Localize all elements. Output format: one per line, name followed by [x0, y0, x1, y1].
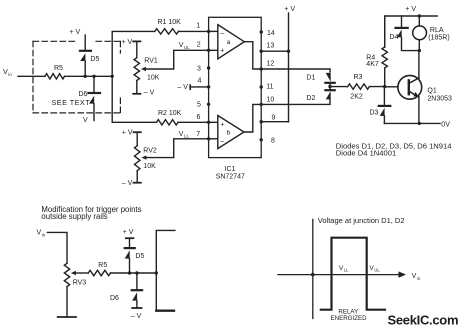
diode D1	[326, 73, 331, 82]
pin 14	[260, 30, 263, 33]
power +V label RV1	[122, 39, 133, 46]
svg-text:2K2: 2K2	[350, 94, 363, 101]
svg-text:+ V: + V	[284, 6, 295, 13]
svg-text:RV1: RV1	[144, 57, 158, 64]
node VUL label	[369, 265, 380, 273]
svg-text:R3: R3	[354, 74, 363, 81]
node VLL label	[339, 265, 349, 273]
svg-text:UL: UL	[374, 268, 380, 273]
svg-text:4K7: 4K7	[366, 61, 379, 68]
svg-text:10K: 10K	[143, 163, 156, 170]
junction dot node feed	[111, 75, 114, 78]
resistor R1	[155, 29, 179, 34]
diode D4	[401, 16, 403, 27]
wire R3 to base node	[369, 86, 384, 88]
diode D5 mod	[126, 237, 134, 239]
svg-text:+: +	[220, 121, 224, 128]
resistor R3	[348, 84, 370, 89]
wire junction to R3	[330, 86, 348, 88]
svg-text:D6: D6	[110, 295, 119, 302]
svg-text:9: 9	[272, 114, 276, 121]
svg-text:2: 2	[197, 42, 201, 49]
pin 12	[260, 67, 263, 70]
pin 8	[260, 138, 263, 141]
pin 11	[260, 85, 263, 88]
wiper RV3 arrow	[71, 271, 76, 275]
node Vin input label	[3, 67, 12, 77]
wiper RV2 arrow and wire to pin7	[141, 155, 146, 159]
node Vin label mod	[37, 230, 46, 238]
svg-text:5: 5	[197, 101, 201, 108]
potentiometer RV3	[64, 263, 69, 286]
svg-text:0V: 0V	[441, 121, 450, 128]
svg-text:– V: – V	[144, 90, 155, 97]
svg-text:SeekIC.com: SeekIC.com	[388, 312, 459, 327]
svg-text:7: 7	[196, 131, 200, 138]
svg-text:a: a	[227, 39, 231, 46]
wire Q1 emitter down	[418, 97, 420, 124]
svg-text:in: in	[417, 276, 421, 281]
wire base node to Q1	[385, 86, 398, 88]
svg-text:–: –	[220, 138, 224, 145]
svg-text:V: V	[179, 131, 184, 138]
svg-text:– V: – V	[177, 84, 188, 91]
svg-text:D2: D2	[306, 95, 315, 102]
note relay energized	[331, 308, 368, 322]
resistor R5 mod	[88, 270, 110, 275]
svg-text:D1: D1	[306, 74, 315, 81]
resistor R5	[45, 74, 65, 79]
wire R1 to pin1	[179, 30, 209, 32]
pin 10	[260, 103, 263, 106]
svg-text:10K: 10K	[147, 75, 160, 82]
svg-text:Voltage at junction D1, D2: Voltage at junction D1, D2	[318, 216, 405, 225]
svg-text:in: in	[42, 232, 46, 237]
potentiometer RV1	[133, 40, 140, 42]
svg-text:Diode D4 1N4001: Diode D4 1N4001	[336, 148, 396, 157]
svg-text:+ V: + V	[405, 6, 416, 13]
op-amp U1b	[218, 116, 244, 149]
svg-text:+ V: + V	[122, 130, 133, 137]
junction dot node/D6	[92, 75, 95, 78]
wire bus to main circuit	[156, 230, 175, 311]
diode D5	[84, 35, 86, 50]
waveform pulse	[321, 238, 385, 310]
op-amp U1a	[218, 25, 245, 59]
svg-text:outside supply rails: outside supply rails	[41, 212, 107, 221]
op-amp IC1 package outline	[209, 17, 262, 157]
wire feed split to R1 and R2	[112, 31, 155, 122]
svg-text:12: 12	[267, 61, 275, 68]
svg-text:LL: LL	[344, 268, 349, 273]
watermark SeekIC.com	[388, 312, 459, 327]
svg-text:R5: R5	[98, 262, 107, 269]
note diode types	[336, 141, 452, 157]
svg-text:13: 13	[267, 43, 275, 50]
wire Q1 collector up	[418, 51, 420, 79]
svg-text:(185R): (185R)	[428, 34, 449, 41]
wire feed to R2	[112, 121, 156, 123]
svg-text:R1 10K: R1 10K	[158, 19, 182, 26]
svg-text:ENERGIZED: ENERGIZED	[331, 315, 368, 322]
wire Vin to R5	[18, 75, 45, 77]
diode D6 mod	[136, 273, 138, 289]
svg-text:V: V	[179, 42, 184, 49]
pin 9	[260, 120, 263, 123]
waveform axis vertical	[312, 219, 314, 318]
power +V label above D5	[70, 29, 81, 36]
svg-text:R5: R5	[54, 65, 63, 72]
svg-text:b: b	[227, 129, 231, 136]
pin 3	[207, 66, 210, 69]
pin 7	[207, 137, 210, 140]
pin 1	[207, 30, 210, 33]
svg-text:V: V	[412, 273, 417, 280]
note modification title	[41, 205, 141, 221]
wiper RV1 arrow and wire to pin2	[141, 67, 146, 71]
node junction D1 D2	[329, 83, 331, 90]
svg-text:RLA: RLA	[430, 27, 444, 34]
diode D6	[93, 76, 95, 92]
junction dot D6 mod	[135, 271, 138, 274]
svg-text:RV3: RV3	[73, 280, 87, 287]
svg-text:+ V: + V	[122, 39, 133, 46]
svg-text:SEE TEXT: SEE TEXT	[52, 98, 91, 107]
note voltage at junction	[318, 216, 405, 225]
svg-text:–: –	[220, 30, 224, 37]
relay coil RLA	[418, 16, 420, 26]
resistor R2	[157, 120, 179, 125]
svg-text:– V: – V	[131, 313, 142, 320]
node VUL label pin2	[179, 42, 190, 50]
rail 0V	[384, 122, 440, 124]
svg-text:SN72747: SN72747	[216, 174, 245, 181]
power +V rail at IC	[284, 6, 295, 13]
svg-text:8: 8	[271, 137, 275, 144]
svg-text:V: V	[37, 230, 42, 237]
potentiometer RV2	[134, 131, 141, 133]
svg-text:D4: D4	[390, 34, 399, 41]
svg-text:3: 3	[197, 65, 201, 72]
svg-text:V: V	[83, 117, 88, 124]
node Vin axis label	[412, 273, 421, 281]
svg-text:Q1: Q1	[427, 88, 436, 95]
waveform axis horizontal with arrow	[278, 274, 400, 276]
pin 13	[260, 50, 263, 53]
wire Vin mod	[48, 232, 68, 263]
resistor R4	[384, 16, 386, 47]
svg-text:1: 1	[196, 23, 200, 30]
svg-text:+ V: + V	[70, 29, 81, 36]
dashed box SEE TEXT	[33, 41, 120, 113]
svg-text:10: 10	[267, 96, 275, 103]
node VLL label pin7	[179, 131, 190, 139]
svg-text:in: in	[8, 72, 12, 77]
svg-text:RV2: RV2	[143, 148, 157, 155]
svg-text:+: +	[220, 47, 224, 54]
power +V label mod	[123, 229, 134, 236]
svg-text:14: 14	[267, 30, 275, 37]
svg-text:6: 6	[197, 114, 201, 121]
power +V top rail	[405, 6, 416, 13]
node -V label below D6	[83, 117, 88, 124]
junction dot D5 mod	[128, 271, 131, 274]
pin 5	[207, 103, 210, 106]
svg-text:+ V: + V	[123, 229, 134, 236]
wire pin9 to +V	[261, 121, 288, 123]
svg-text:R2 10K: R2 10K	[158, 110, 182, 117]
wire R2 to pin6	[178, 121, 209, 123]
wire pin12 to D1	[261, 69, 330, 72]
diode D3	[383, 87, 385, 105]
svg-text:D3: D3	[370, 109, 379, 116]
junction dot node/D5	[84, 75, 87, 78]
svg-text:D5: D5	[90, 56, 99, 63]
diode D2	[325, 89, 334, 91]
wire pin13 to +V	[261, 50, 288, 52]
svg-text:IC1: IC1	[225, 166, 236, 173]
wire R5 mod to bus	[111, 272, 157, 274]
svg-text:D6: D6	[79, 91, 88, 98]
svg-text:2N3053: 2N3053	[427, 95, 452, 102]
svg-text:UL: UL	[184, 45, 190, 50]
svg-text:V: V	[3, 67, 8, 76]
svg-text:– V: – V	[122, 180, 133, 187]
wire D2 to pin10	[261, 99, 330, 104]
transistor Q1	[398, 75, 422, 99]
pin 2	[207, 49, 210, 52]
svg-text:4: 4	[198, 77, 202, 84]
power +V label RV2	[122, 130, 133, 137]
svg-text:D5: D5	[135, 253, 144, 260]
svg-text:LL: LL	[184, 134, 189, 139]
wire -V tick to pin4	[189, 85, 191, 89]
svg-text:11: 11	[266, 83, 273, 90]
pin 6	[207, 121, 210, 124]
pin 4	[207, 85, 210, 88]
wire R5 to node	[65, 75, 113, 77]
